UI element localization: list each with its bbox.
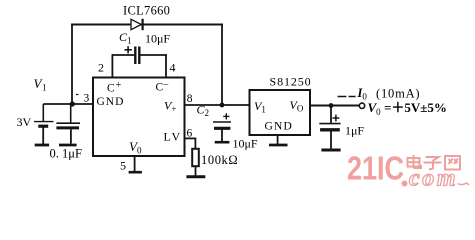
- svg-text:8: 8: [187, 93, 193, 105]
- svg-text:3V: 3V: [17, 115, 32, 129]
- svg-text:1μF: 1μF: [345, 124, 364, 138]
- diode D1: [131, 19, 143, 30]
- ground bar (C3): [59, 144, 77, 147]
- resistor R1 100k: [192, 149, 199, 166]
- watermark wang (CJK): [445, 156, 460, 170]
- ground bar (battery): [35, 144, 49, 147]
- battery 3V: [34, 104, 54, 144]
- svg-text:3: 3: [84, 93, 90, 105]
- wire left rail: [71, 24, 73, 105]
- svg-text:100kΩ: 100kΩ: [201, 153, 238, 167]
- ground bar (C2): [215, 141, 230, 144]
- ground bar (R1): [186, 175, 205, 178]
- svg-text:2: 2: [98, 61, 104, 75]
- tick before 3: [76, 94, 79, 96]
- wire U2 ground pin: [277, 135, 279, 144]
- C2 polarity plus: [223, 113, 229, 119]
- wire resistor to ground: [195, 166, 197, 175]
- svg-text:21IC: 21IC: [347, 151, 404, 188]
- watermark dian (CJK): [408, 155, 422, 168]
- wire pin8 to S81250: [185, 104, 250, 106]
- C1 polarity plus: [125, 46, 132, 53]
- IC U1 ICL7660 box: [93, 78, 185, 157]
- wire right rail: [221, 24, 223, 107]
- svg-text:4: 4: [170, 61, 176, 75]
- wire pin5 vertical: [134, 156, 136, 172]
- svg-text:ICL7660: ICL7660: [123, 4, 170, 18]
- C4 polarity plus: [333, 115, 340, 122]
- watermark period of .com: [402, 181, 408, 187]
- svg-text:(10mA): (10mA): [376, 87, 420, 101]
- ground bar (pin5): [129, 171, 142, 174]
- svg-text:=＋5V±5%: =＋5V±5%: [384, 100, 447, 115]
- watermark com tail swash: [458, 183, 470, 185]
- wire output: [310, 105, 359, 107]
- wire pin4 vertical: [165, 54, 167, 78]
- svg-text:LV: LV: [164, 130, 183, 144]
- wire pin6: [185, 138, 196, 150]
- current arrow I0 dashed: [338, 96, 356, 98]
- terminal circle output: [359, 103, 364, 108]
- svg-text:GND: GND: [97, 96, 125, 108]
- capacitor C3 0.1uF: [56, 104, 80, 144]
- svg-text:10μF: 10μF: [233, 137, 258, 151]
- svg-text:S81250: S81250: [270, 75, 312, 89]
- svg-text:0. 1μF: 0. 1μF: [50, 147, 82, 161]
- svg-text:10μF: 10μF: [145, 32, 170, 46]
- svg-text:6: 6: [187, 128, 193, 140]
- capacitor C1: [112, 47, 167, 65]
- wire top horizontal: [71, 24, 223, 26]
- capacitor C2: [213, 122, 231, 141]
- wire pin3 horizontal: [43, 103, 93, 105]
- ground bar (C4): [321, 149, 340, 152]
- svg-text:GND: GND: [265, 121, 294, 133]
- svg-text:5: 5: [120, 159, 126, 173]
- svg-text:com: com: [409, 166, 458, 192]
- watermark zi (CJK): [424, 157, 442, 170]
- wire pin2 vertical: [111, 54, 113, 78]
- ground bar (U2): [269, 144, 288, 147]
- junction node (right rail / pin8): [220, 103, 225, 108]
- junction node (left rail / pin3): [70, 101, 75, 106]
- junction node (output / C4): [329, 103, 334, 108]
- capacitor C4 1uF: [319, 106, 340, 149]
- regulator U2 S81250 box: [250, 90, 311, 135]
